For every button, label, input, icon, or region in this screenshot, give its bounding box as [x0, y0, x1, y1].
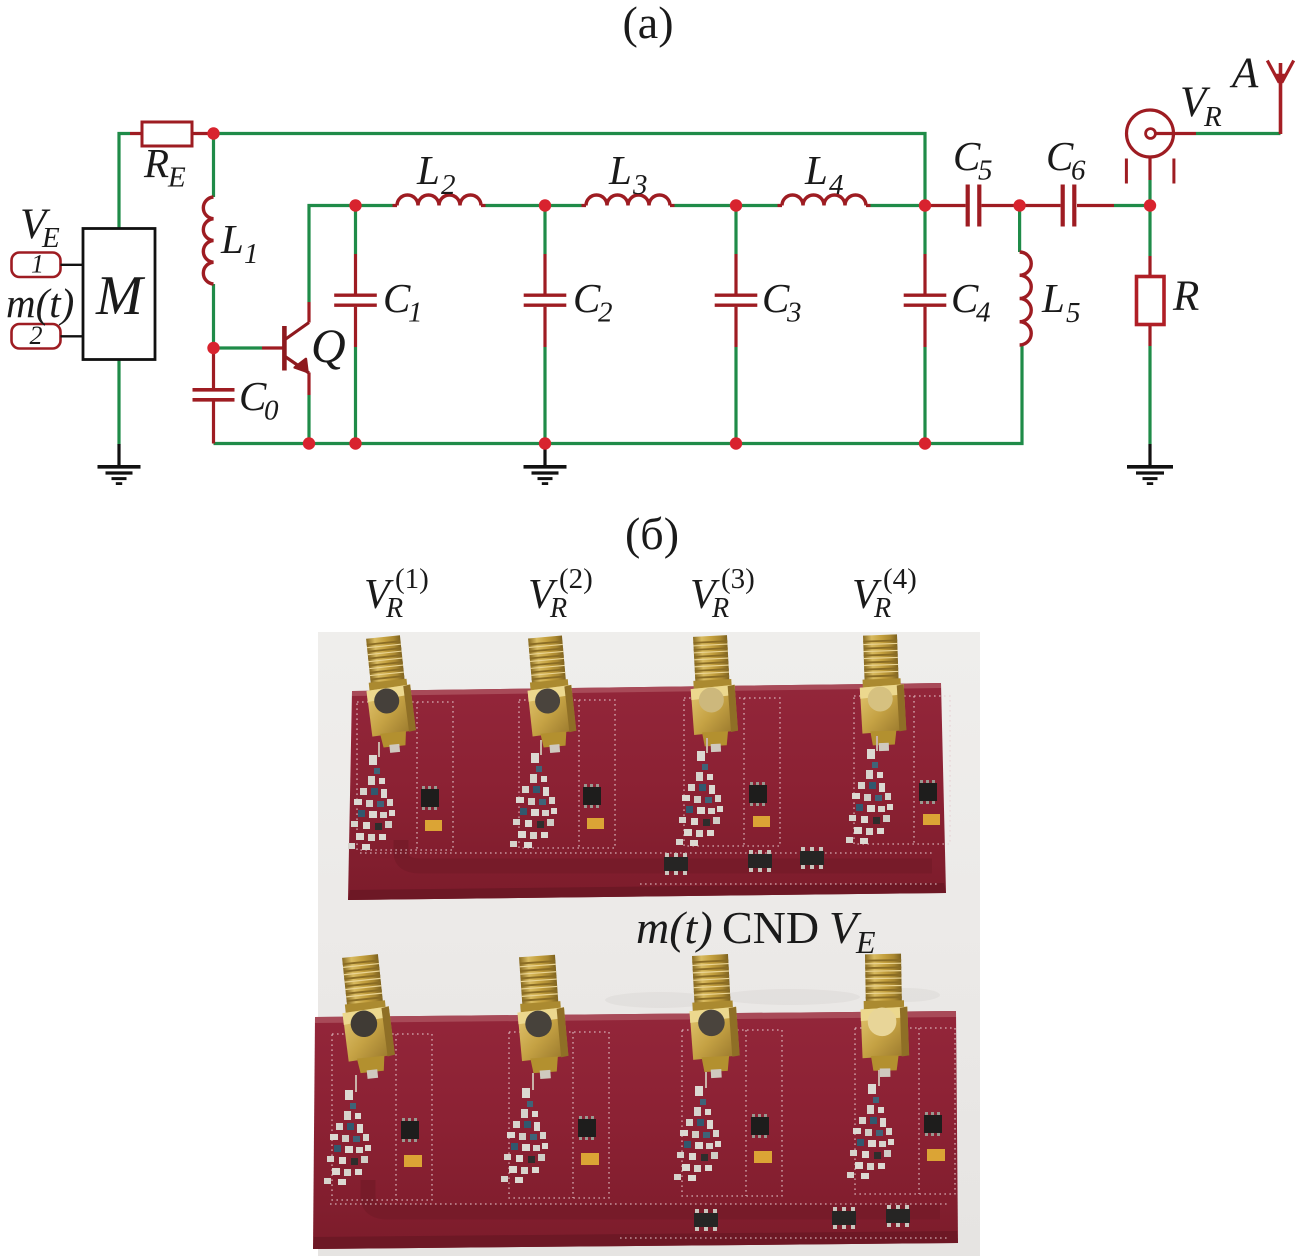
connector VR circle: [1127, 110, 1174, 157]
svg-text:(4): (4): [883, 563, 917, 595]
node at base: [207, 342, 219, 354]
top PCB board: [348, 683, 946, 900]
bottom PCB silkscreen dotted boxes: [330, 1028, 955, 1238]
label VR1: [364, 563, 429, 624]
label C0: [239, 373, 279, 427]
svg-text:4: 4: [976, 297, 991, 329]
label (a): [622, 0, 673, 48]
svg-text:C: C: [762, 275, 790, 321]
wire RE left corner to M top: [119, 134, 130, 229]
pin 1 terminal: [12, 253, 84, 278]
svg-text:1: 1: [244, 238, 259, 270]
svg-text:R: R: [385, 593, 403, 624]
svg-text:0: 0: [264, 395, 279, 427]
transistor Q: [284, 323, 309, 374]
svg-text:3: 3: [632, 169, 648, 201]
svg-text:(a): (a): [622, 0, 673, 48]
top PCB SMA connectors: [361, 634, 907, 754]
inductor L2: [397, 195, 481, 206]
bottom PCB component clusters: [324, 1070, 945, 1231]
top PCB silkscreen dotted boxes: [357, 696, 950, 884]
svg-text:C: C: [951, 275, 979, 321]
svg-text:L: L: [804, 147, 828, 193]
label RE: [143, 140, 186, 194]
wire R bottom to ground: [1148, 346, 1151, 444]
svg-text:2: 2: [441, 169, 456, 201]
svg-text:L: L: [608, 147, 632, 193]
capacitor C0: [193, 348, 235, 444]
wire M bottom to ground: [117, 360, 120, 445]
svg-text:C: C: [573, 275, 601, 321]
antenna A: [1267, 61, 1293, 135]
capacitor C2: [524, 295, 567, 305]
label L3: [608, 147, 648, 201]
block M: [83, 229, 155, 360]
wire C6 leads: [1020, 204, 1114, 207]
svg-text:R: R: [711, 593, 729, 624]
node C3 bottom: [730, 437, 742, 449]
node C1 bottom: [349, 437, 361, 449]
wire base red segment: [262, 346, 283, 349]
label C5: [953, 133, 993, 187]
label VR3: [690, 563, 755, 624]
label VR: [1180, 79, 1222, 133]
top PCB component clusters: [348, 736, 940, 875]
svg-text:m(t): m(t): [6, 280, 74, 326]
label VR2: [528, 563, 593, 624]
svg-text:C: C: [953, 133, 981, 179]
svg-text:6: 6: [1071, 155, 1086, 187]
svg-text:C: C: [1046, 133, 1074, 179]
wire C5 leads: [925, 204, 1020, 207]
node C2 top: [539, 199, 551, 211]
wire L5 top lead: [1018, 206, 1021, 253]
wire top rail from RE node right then down to C4/C5 node: [214, 134, 926, 206]
wire output node to resistor R: [1148, 206, 1151, 257]
label VE: [20, 201, 60, 254]
svg-text:(2): (2): [559, 563, 593, 595]
ground under M: [98, 444, 141, 484]
wire collector riser green part and mid-rail start: [309, 206, 393, 303]
bottom PCB ground bus trace: [368, 1180, 940, 1212]
node at RE output: [207, 127, 219, 139]
svg-text:5: 5: [1066, 297, 1081, 329]
svg-text:R: R: [549, 593, 567, 624]
wire C3 column: [734, 206, 737, 444]
wire mid rail L3 to L4: [675, 204, 778, 207]
node C5-C6: [1013, 199, 1025, 211]
svg-text:E: E: [167, 162, 186, 194]
label C6: [1046, 133, 1086, 187]
capacitor C4: [904, 295, 947, 305]
label pin 1: [31, 250, 44, 279]
label C2: [573, 275, 613, 329]
node C3 top: [730, 199, 742, 211]
ground under C2: [524, 444, 567, 484]
svg-text:C: C: [239, 373, 267, 419]
wire C4 column: [923, 206, 926, 444]
label R: [1172, 273, 1199, 320]
label (b): [625, 508, 679, 559]
pin 2 terminal: [12, 324, 84, 349]
resistor RE: [130, 122, 214, 146]
wire base node to transistor base: [214, 346, 263, 349]
label VR4: [852, 563, 917, 624]
svg-text:L: L: [416, 147, 440, 193]
wire RE node down to L1 top: [212, 134, 215, 198]
bottom PCB board: [313, 1011, 958, 1249]
wire C1 column: [354, 206, 357, 444]
label L2: [416, 147, 456, 201]
inductor L4: [782, 195, 866, 206]
caption m(t) CND VE: [636, 902, 876, 960]
label C1: [383, 275, 423, 329]
svg-text:R: R: [1203, 101, 1222, 133]
label L1: [220, 216, 259, 270]
wire emitter green to bottom rail: [307, 395, 310, 444]
wire emitter red segment: [307, 373, 310, 396]
label A: [1229, 50, 1259, 97]
wire connector pin to antenna: [1155, 132, 1196, 135]
svg-text:C: C: [383, 275, 411, 321]
label L5: [1041, 275, 1081, 329]
svg-text:5: 5: [978, 155, 993, 187]
label C3: [762, 275, 802, 329]
svg-text:2: 2: [598, 297, 613, 329]
caption reflection smudges: [605, 988, 940, 1008]
svg-text:2: 2: [30, 321, 43, 350]
node C4 bottom: [919, 437, 931, 449]
wire mid rail L4 to C4 node: [871, 204, 926, 207]
label L4: [804, 147, 844, 201]
wire mid rail L2 to L3: [486, 204, 582, 207]
wire output node to connector: [1148, 180, 1151, 206]
svg-text:3: 3: [786, 297, 802, 329]
node output: [1144, 199, 1156, 211]
label Q: [311, 320, 346, 373]
svg-text:(1): (1): [395, 563, 429, 595]
svg-text:Q: Q: [311, 320, 346, 373]
wire L1 bottom to base node: [212, 284, 215, 348]
photograph background: [318, 632, 980, 1256]
node emitter bottom: [303, 437, 315, 449]
svg-text:(3): (3): [721, 563, 755, 595]
svg-text:1: 1: [31, 250, 44, 279]
resistor R: [1137, 277, 1165, 325]
svg-text:L: L: [220, 216, 244, 262]
svg-text:M: M: [95, 265, 146, 327]
connector shield tick right: [1172, 159, 1175, 184]
capacitor C6: [1063, 185, 1075, 227]
svg-text:R: R: [873, 593, 891, 624]
svg-text:A: A: [1229, 50, 1259, 97]
node C1 top: [349, 199, 361, 211]
svg-text:R: R: [1172, 273, 1199, 320]
label pin 2: [30, 321, 43, 350]
inductor L1: [203, 197, 213, 284]
capacitor C1: [334, 295, 377, 305]
svg-text:R: R: [143, 140, 169, 186]
wire red stubs at inductor ends: [393, 204, 871, 207]
svg-text:1: 1: [408, 297, 423, 329]
capacitor C3: [715, 295, 758, 305]
top PCB ground bus trace: [401, 840, 932, 866]
wire collector red segment: [307, 302, 310, 323]
capacitor C5: [968, 185, 980, 227]
bottom PCB SMA connectors: [337, 953, 910, 1080]
label M: [95, 265, 146, 327]
inductor L5: [1020, 252, 1032, 345]
label m(t): [6, 280, 74, 326]
wire C6 to output node green: [1114, 204, 1150, 207]
connector shield tick left: [1125, 159, 1128, 184]
ground under R: [1127, 444, 1173, 484]
svg-text:(б): (б): [625, 508, 679, 559]
node C4 top: [919, 199, 931, 211]
svg-text:L: L: [1041, 275, 1065, 321]
svg-text:CND: CND: [722, 902, 819, 953]
svg-text:4: 4: [829, 169, 844, 201]
node C2 bottom: [539, 437, 551, 449]
wire C2 column: [543, 206, 546, 444]
label C4: [951, 275, 991, 329]
inductor L3: [586, 195, 670, 206]
wire bottom rail: [214, 345, 1023, 444]
svg-text:m(t): m(t): [636, 902, 713, 953]
